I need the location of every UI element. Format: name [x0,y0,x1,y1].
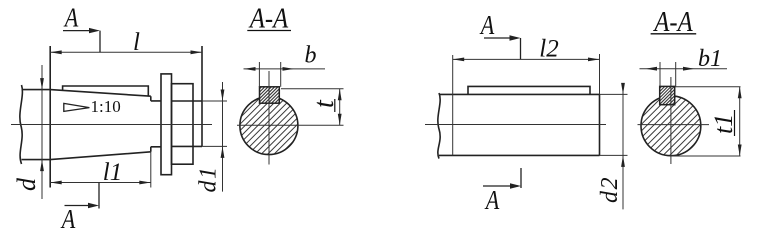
svg-text:d: d [12,177,41,191]
svg-text:t1: t1 [709,114,738,134]
svg-text:b: b [305,43,317,69]
svg-text:d2: d2 [597,176,623,203]
svg-text:l: l [133,29,140,56]
svg-text:d1: d1 [196,166,222,193]
svg-text:l1: l1 [103,159,122,186]
svg-text:l2: l2 [539,36,558,63]
svg-text:A: A [479,11,495,41]
svg-text:A-A: A-A [248,3,289,34]
svg-text:A: A [63,4,79,34]
svg-text:1:10: 1:10 [91,97,121,116]
svg-text:A: A [60,205,76,235]
svg-text:b1: b1 [698,46,722,72]
svg-text:A: A [484,186,500,216]
svg-text:A-A: A-A [652,7,693,38]
